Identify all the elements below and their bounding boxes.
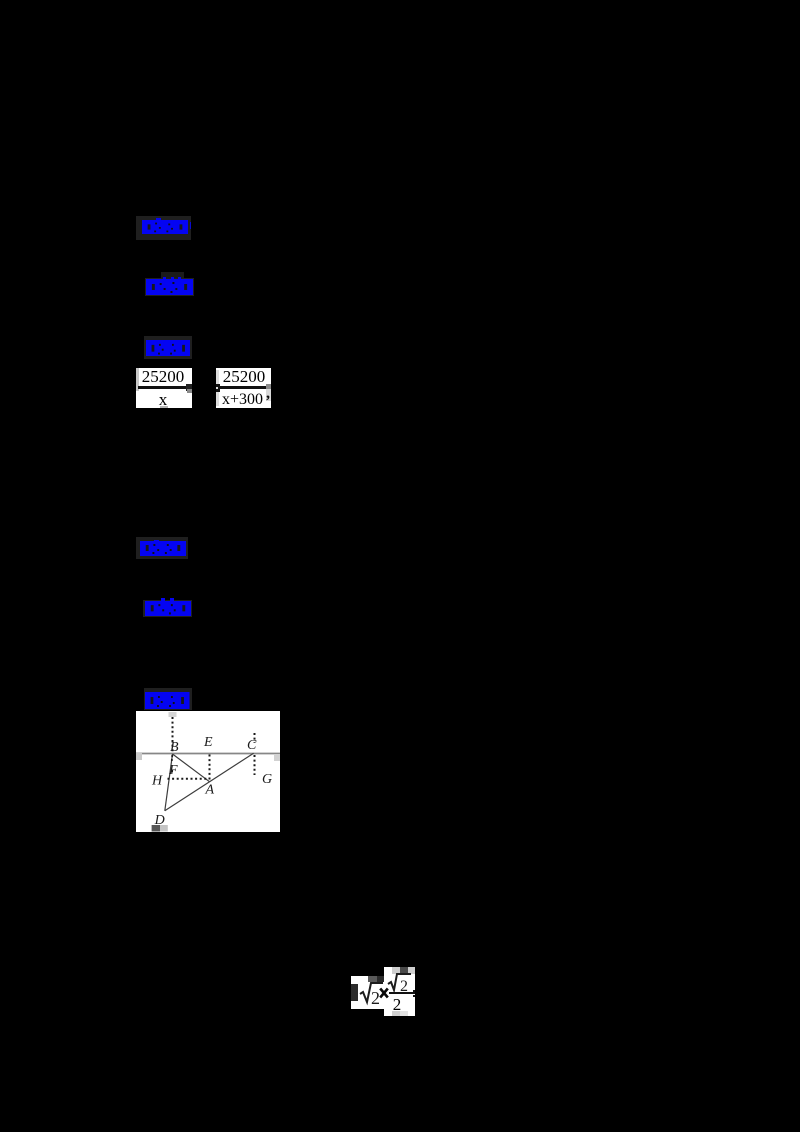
gray underline	[160, 406, 168, 408]
svg-text:E: E	[203, 735, 213, 750]
sqrt 2	[359, 981, 384, 1007]
gray square top right	[266, 384, 271, 389]
svg-text:A: A	[205, 783, 215, 798]
line end cap right	[274, 755, 280, 761]
dotted vertical E to A	[209, 755, 211, 782]
svg-text:B: B	[170, 740, 179, 755]
top gray handles	[392, 967, 400, 974]
formula image A: sqrt(2)	[351, 976, 384, 1009]
selection handle top	[169, 712, 177, 717]
F tick dot	[171, 770, 173, 773]
fraction bar	[218, 386, 268, 389]
side DC through A	[165, 753, 254, 811]
dotted horizontal H to A	[168, 778, 210, 780]
label block 3 (jieda)	[144, 336, 192, 359]
selection handle bottom light	[160, 825, 168, 832]
side BD	[165, 754, 173, 811]
dotted vertical at C above	[254, 733, 256, 743]
svg-text:G: G	[262, 772, 272, 787]
fraction bar	[386, 992, 415, 994]
ground horizontal line	[136, 753, 280, 755]
selection handle bottom dark	[152, 825, 160, 832]
comma area	[266, 389, 271, 401]
right dark notch	[186, 384, 192, 391]
numerator 25200	[221, 367, 267, 387]
label block 1 (kaodian)	[136, 216, 191, 240]
formula image B: sqrt(2)/2	[384, 967, 415, 1016]
fraction image 1: 25200/x	[136, 368, 192, 408]
denominator 2	[384, 995, 410, 1015]
svg-text:F: F	[168, 763, 178, 778]
fraction bar	[138, 386, 186, 389]
numerator 25200	[140, 367, 186, 387]
denominator x+300	[219, 391, 266, 409]
multiplication sign between formula boxes	[379, 987, 389, 999]
svg-text:2: 2	[400, 978, 408, 992]
geometry figure image	[136, 711, 280, 832]
label block 2 (fenxi)	[145, 278, 194, 296]
partial digit blob	[351, 984, 358, 1001]
label block 5 (fenxi q2)	[143, 600, 192, 617]
dotted vertical C to G	[254, 755, 256, 775]
partial equals at right	[413, 990, 415, 992]
sqrt 2 numerator	[387, 973, 413, 992]
partial equals sign	[216, 384, 220, 387]
fraction image 2: 25200/(x+300)	[216, 368, 271, 408]
left light strip	[216, 370, 219, 406]
left gray strip	[136, 368, 139, 391]
dotted segment B to F	[171, 755, 174, 763]
label block 4 (kaodian q2)	[136, 537, 188, 559]
label block 6 (jieda q2)	[144, 688, 192, 710]
line end cap left	[136, 753, 142, 760]
side BA	[173, 754, 210, 782]
svg-text:C: C	[247, 738, 257, 753]
bottom gray handles	[392, 1011, 400, 1016]
gray handle top	[368, 976, 377, 982]
dotted vertical above B	[172, 717, 174, 753]
denominator x	[140, 390, 186, 410]
svg-text:H: H	[151, 774, 163, 789]
